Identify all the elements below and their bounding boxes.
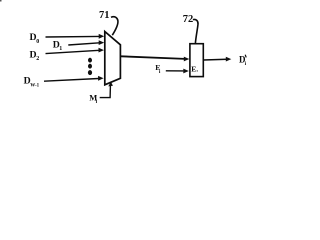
svg-text:71: 71 — [99, 10, 110, 21]
svg-text:i: i — [245, 61, 247, 67]
svg-text:i: i — [159, 69, 161, 75]
svg-text:W-1: W-1 — [30, 83, 39, 88]
svg-text:E.: E. — [191, 65, 198, 74]
svg-text:2: 2 — [36, 56, 39, 62]
svg-text:72: 72 — [183, 14, 194, 25]
svg-text:1: 1 — [59, 46, 62, 52]
svg-text:0: 0 — [36, 39, 39, 45]
